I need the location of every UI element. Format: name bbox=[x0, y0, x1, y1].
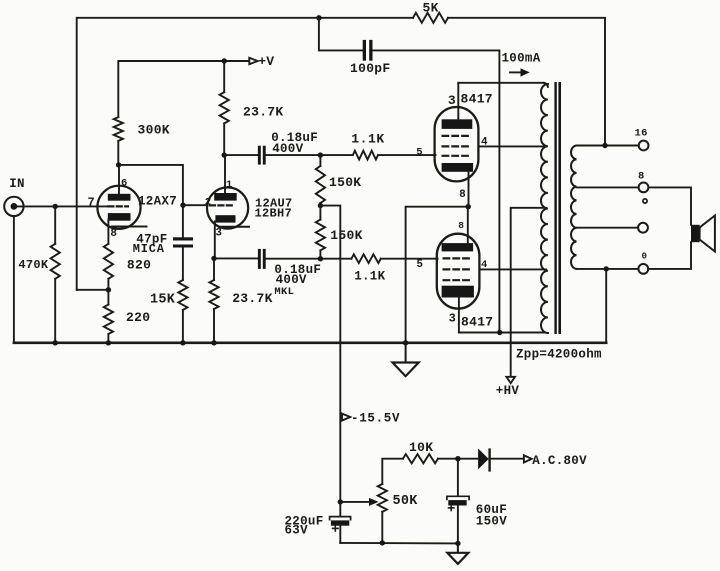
svg-text:470K: 470K bbox=[18, 258, 49, 272]
node 150K center bbox=[318, 203, 323, 208]
capacitor 220uF 63V bbox=[339, 502, 341, 517]
svg-text:7: 7 bbox=[88, 196, 95, 210]
wire top feedback rail bbox=[77, 18, 413, 290]
wire 0 ohm to speaker bbox=[648, 242, 691, 269]
node bottom plate / 100pF bbox=[497, 330, 502, 335]
terminal 0 bbox=[638, 264, 648, 274]
capacitor 0.18uF 400V MKL (bottom) bbox=[258, 249, 261, 269]
svg-text:1.1K: 1.1K bbox=[351, 132, 385, 147]
wire +HV to center tap bbox=[511, 208, 546, 377]
capacitor 100pF bbox=[363, 40, 366, 61]
diode D1 bbox=[458, 458, 478, 460]
terminal 8 bbox=[639, 183, 649, 193]
svg-text:220: 220 bbox=[126, 310, 150, 325]
svg-text:12AX7: 12AX7 bbox=[138, 195, 177, 209]
svg-text:400V: 400V bbox=[276, 273, 307, 287]
wire jack ground bbox=[13, 216, 15, 343]
node 820/220 NFB bbox=[106, 287, 111, 292]
svg-text:23.7K: 23.7K bbox=[232, 291, 273, 306]
svg-text:23.7K: 23.7K bbox=[243, 105, 284, 120]
svg-text:12BH7: 12BH7 bbox=[255, 206, 293, 220]
svg-text:300K: 300K bbox=[138, 123, 170, 138]
terminal 16 bbox=[639, 141, 649, 151]
wire plate to grid2 coupling bbox=[119, 165, 183, 237]
svg-text:63V: 63V bbox=[285, 524, 309, 538]
node 12AX7 plate bbox=[116, 162, 121, 167]
node top coupling out bbox=[318, 152, 323, 157]
svg-text:4: 4 bbox=[481, 259, 487, 271]
wire cathodes to ground bbox=[406, 207, 469, 343]
node cathode ground bbox=[403, 340, 408, 345]
svg-text:1.1K: 1.1K bbox=[354, 270, 385, 284]
tube 12AX7 V1 bbox=[97, 165, 146, 244]
tube 8417 V4 (bottom) bbox=[437, 207, 480, 333]
svg-text:100pF: 100pF bbox=[350, 61, 391, 76]
svg-text:8: 8 bbox=[458, 220, 464, 231]
wire 8 ohm to speaker bbox=[648, 187, 691, 224]
svg-text:5: 5 bbox=[416, 147, 422, 159]
wire bottom plate to primary bbox=[459, 332, 544, 334]
svg-text:6: 6 bbox=[121, 177, 127, 189]
wire supply bottom bbox=[340, 542, 458, 545]
svg-text:+HV: +HV bbox=[496, 384, 520, 398]
terminal -15.5V arrow bbox=[342, 414, 350, 421]
capacitor 60uF 150V bbox=[457, 459, 459, 496]
resistor 23.7K (cathode) bbox=[213, 258, 215, 280]
resistor 10K bbox=[403, 454, 438, 463]
svg-text:150V: 150V bbox=[476, 515, 507, 529]
wire bottom screen tap pin 4 bbox=[479, 268, 546, 270]
wire input bbox=[15, 205, 108, 207]
resistor 150K (top) bbox=[316, 166, 325, 203]
svg-text:A.C.80V: A.C.80V bbox=[532, 454, 587, 468]
wire bias feed bbox=[320, 206, 340, 502]
node direct coupling bbox=[180, 203, 185, 208]
svg-text:8417: 8417 bbox=[461, 91, 493, 106]
svg-text:50K: 50K bbox=[393, 494, 419, 509]
tube 12AU7 / 12BH7 V2 bbox=[207, 155, 249, 258]
svg-text:100mA: 100mA bbox=[502, 52, 541, 66]
resistor 820 bbox=[104, 244, 113, 279]
svg-text:IN: IN bbox=[9, 177, 25, 191]
resistor 50K pot bbox=[381, 512, 383, 543]
wire pot wiper arrow bbox=[340, 501, 369, 503]
resistor 470K bbox=[54, 206, 56, 243]
svg-text:Zpp=4200ohm: Zpp=4200ohm bbox=[516, 348, 602, 362]
svg-text:150K: 150K bbox=[329, 175, 361, 190]
node 12AU7 cathode bbox=[211, 256, 216, 261]
wire 100mA arrow bbox=[510, 71, 521, 73]
wire +V rail bbox=[118, 61, 249, 117]
speaker bbox=[691, 225, 700, 242]
connector IN jack bbox=[4, 197, 23, 216]
wire to coupling cap bottom bbox=[214, 257, 258, 259]
resistor 1.1K (bottom) bbox=[320, 258, 351, 260]
resistor 1.1K (top) bbox=[320, 154, 352, 156]
capacitor 0.18uF 400V (top) bbox=[258, 146, 261, 165]
svg-text:4: 4 bbox=[481, 137, 488, 149]
resistor 150K (bottom) bbox=[316, 220, 325, 251]
svg-text:+V: +V bbox=[258, 54, 274, 69]
node bottom coupling out bbox=[318, 256, 323, 261]
node diode in bbox=[455, 456, 460, 461]
svg-text:0: 0 bbox=[642, 251, 647, 261]
svg-text:1: 1 bbox=[226, 179, 232, 191]
resistor 23.7K (12AU7 plate load) bbox=[223, 61, 225, 92]
transformer T1 primary bbox=[541, 84, 548, 333]
svg-text:5: 5 bbox=[416, 259, 423, 271]
node NFB junction bbox=[316, 15, 321, 20]
tube 8417 V3 (top) bbox=[435, 83, 479, 207]
terminal 4 bbox=[638, 223, 648, 233]
wire 4 ohm tap bbox=[577, 227, 639, 229]
svg-text:-15.5V: -15.5V bbox=[351, 412, 400, 426]
svg-text:15K: 15K bbox=[150, 293, 176, 308]
wire 16 ohm tap bbox=[577, 145, 639, 147]
svg-text:2: 2 bbox=[205, 197, 211, 209]
svg-text:3: 3 bbox=[215, 227, 222, 239]
svg-text:400V: 400V bbox=[272, 142, 303, 156]
svg-text:820: 820 bbox=[127, 257, 151, 272]
transformer core bbox=[554, 82, 556, 334]
wire ground rail bbox=[14, 341, 606, 344]
node 470K top bbox=[53, 204, 58, 209]
svg-text:3: 3 bbox=[448, 93, 456, 108]
resistor 5K bbox=[413, 13, 448, 23]
node bias divider bbox=[338, 499, 343, 504]
terminal +V arrow bbox=[249, 58, 257, 64]
transformer T1 secondary bbox=[571, 146, 576, 269]
wire top screen tap pin 4 bbox=[478, 145, 546, 147]
ground (supply) bbox=[457, 543, 459, 552]
node supply ground bbox=[455, 541, 460, 546]
wire 100pF to bottom plate bbox=[373, 50, 500, 332]
node rail dots bbox=[53, 340, 217, 345]
svg-text:8: 8 bbox=[638, 170, 645, 182]
svg-text:8: 8 bbox=[110, 228, 117, 240]
node 12AU7 plate bbox=[222, 152, 227, 157]
svg-text:MICA: MICA bbox=[133, 242, 165, 256]
svg-text:10K: 10K bbox=[409, 440, 433, 455]
svg-text:16: 16 bbox=[635, 128, 648, 140]
resistor 300K bbox=[114, 117, 123, 141]
wire 0 ohm tap bbox=[577, 268, 639, 270]
wire 100pF branch bbox=[319, 18, 363, 51]
svg-text:3: 3 bbox=[449, 311, 456, 325]
node cathodes joined bbox=[466, 204, 471, 209]
resistor 220 bbox=[107, 290, 109, 305]
svg-text:150K: 150K bbox=[330, 228, 362, 243]
terminal small circle bbox=[643, 199, 647, 203]
wire to coupling cap top bbox=[224, 154, 258, 156]
wire 8 ohm tap bbox=[577, 186, 639, 188]
svg-text:8417: 8417 bbox=[461, 315, 493, 330]
terminal +HV arrow bbox=[506, 377, 515, 383]
svg-text:5K: 5K bbox=[423, 1, 439, 16]
resistor 15K bbox=[182, 248, 184, 281]
svg-text:8: 8 bbox=[459, 189, 466, 201]
capacitor 47pF MICA bbox=[173, 237, 193, 240]
wire top plate to primary bbox=[458, 82, 544, 84]
wire Zpp drop bbox=[605, 269, 607, 343]
terminal A.C.80V arrow bbox=[524, 455, 532, 462]
node 23.7K top bbox=[222, 58, 227, 63]
ground (output stage) bbox=[405, 343, 407, 363]
svg-text:MKL: MKL bbox=[274, 286, 294, 298]
